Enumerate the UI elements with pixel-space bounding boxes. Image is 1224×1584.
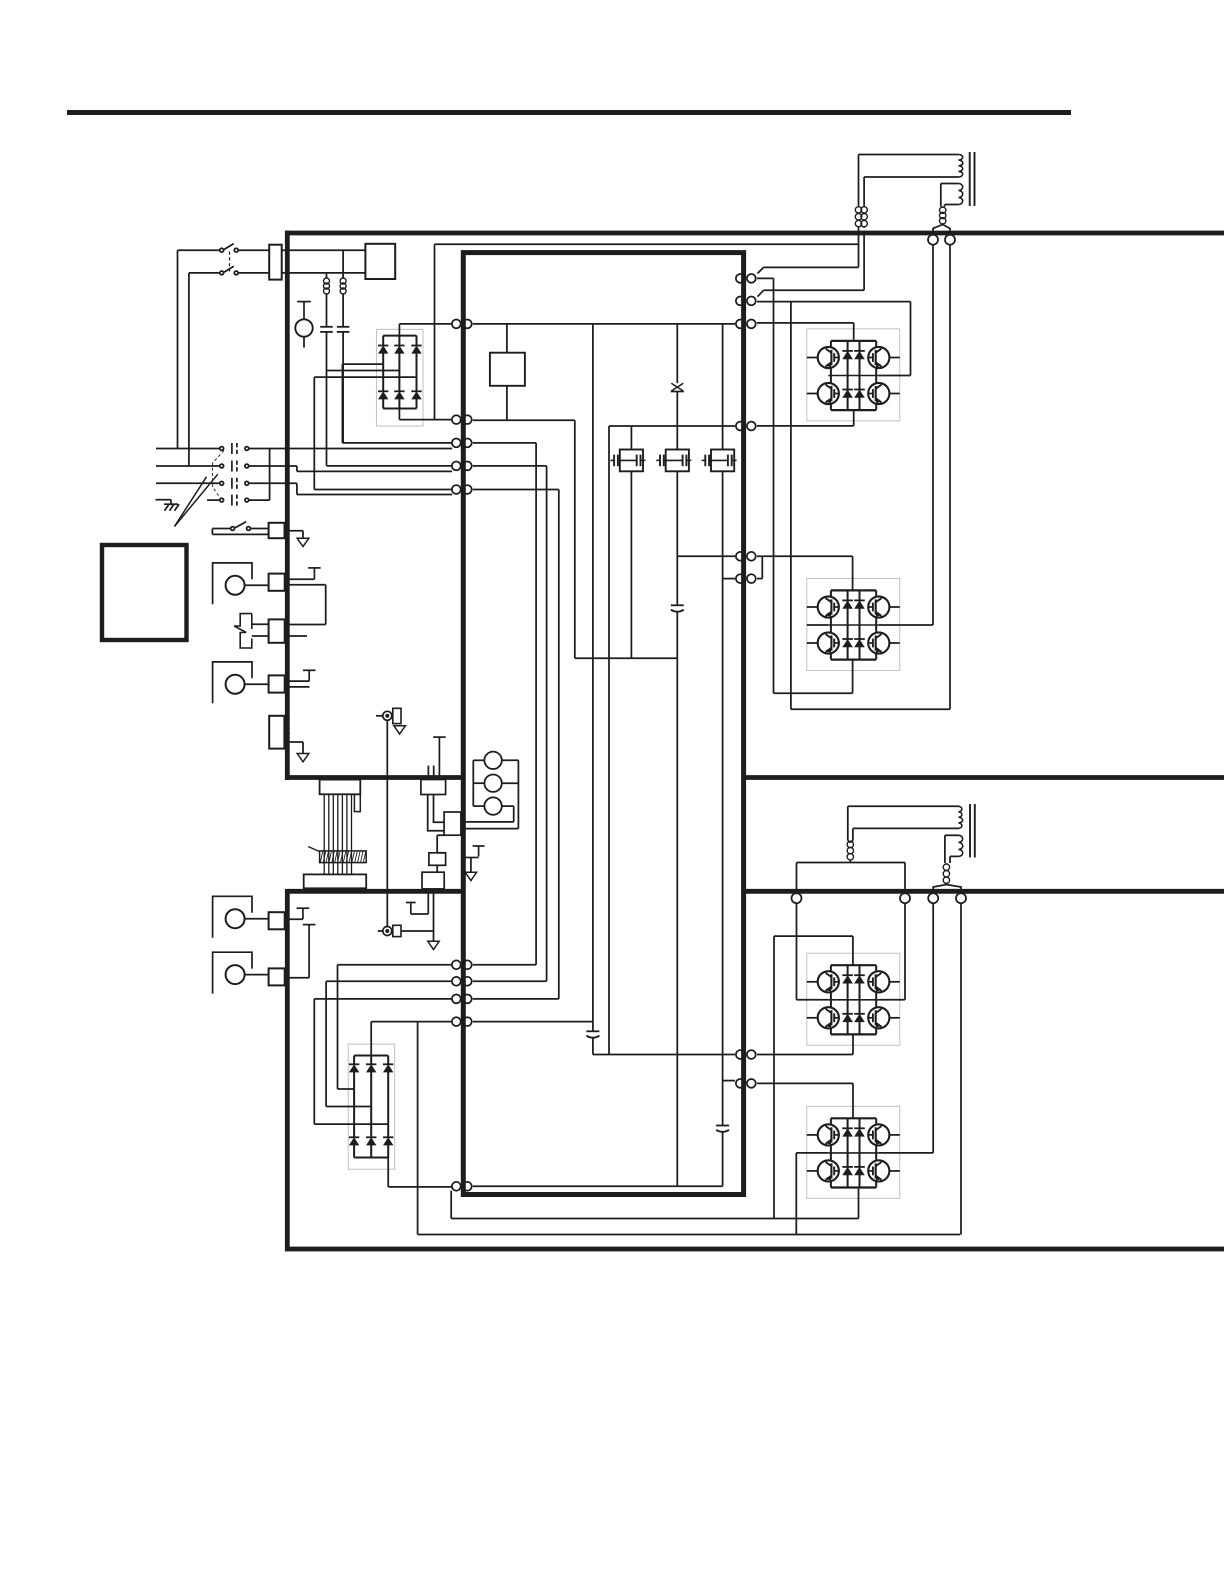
wire D1 tap3 to plug P3 [314,489,452,491]
D1 top bus [383,335,416,337]
wire plug Q1 down link [757,278,774,693]
plug P0 [452,415,472,424]
plug Q3 [736,320,756,329]
wire Z3 top feed [774,936,853,965]
wire FL1 to CB1 lower [282,272,366,274]
T2 secondary top lead [945,834,959,836]
socket J6 [900,893,910,903]
rail DC- vertical [574,420,576,658]
thermostat TP1 [308,568,321,579]
T1 secondary bottom lead [945,204,959,206]
IGBT module Z1 mid rail [828,368,879,384]
T2 secondary bottom lead [950,855,959,857]
switch S1 linkage [229,252,231,272]
fan motor FM3 [213,896,252,937]
IGBT module Z1 top bus [831,340,876,342]
contactor W contact 2 [220,461,249,472]
IGBT module Z4 diode column 2 [859,1118,861,1187]
T2 primary top lead [848,805,959,807]
node DC- to plug P0 [399,419,452,421]
plug Q5 [736,552,756,561]
RC2 wire A [285,578,315,580]
D2 column 3 lower [387,1124,389,1137]
wire plug Q2 loop [757,302,911,376]
contactor W contact 3 [220,478,249,489]
plug Q4 [736,422,756,431]
receptacle RC6 [269,912,285,929]
RC5 ground lead [290,742,303,754]
IGBT module Z1 diode column 2 [859,341,861,410]
ribbon wire [328,794,330,873]
T1 primary A through-wall [858,228,860,231]
IGBT module Z4 diode DA [842,1128,853,1136]
socket J3 [928,235,938,245]
wire pole A down [177,250,179,448]
K3-K4 link [436,865,438,872]
thermostat TP6 [406,903,416,915]
IGBT module Z4 diode DC [842,1167,853,1175]
ribbon wire [351,794,353,873]
socket J8 [956,893,966,903]
IGBT module Z1 transistor QBL [818,383,839,404]
T1 primary winding [959,155,963,178]
IGBT module Z1 diode DB [854,351,865,359]
connector K2 [444,812,461,835]
wire bus link vertical [790,302,792,710]
line L4 lead [207,499,220,501]
IGBT module Z4 transistor QTL [818,1124,839,1145]
T2 secondary down leads [945,835,950,863]
rail DC+ horizontal [473,323,735,325]
RC3 wire B [285,635,307,637]
contactor W linkage [213,451,225,500]
rail Q4 vertical [608,426,610,1055]
IGBT module Z4 transistor QBL [818,1160,839,1181]
line L1 lead [156,448,220,450]
wire Z4 mid left arm [796,1153,828,1235]
wire C9 down [676,612,678,659]
wire C10 down [722,1132,724,1187]
D2 phase in 2 [326,981,452,1106]
RC2 wire B [285,584,326,586]
T1 primary A down [858,155,860,206]
IGBT module Z3 diode DB [854,975,865,983]
IGBT module Z2 emitter leads [831,653,876,659]
IGBT module Z4 collector leads [831,1118,876,1124]
rail to plug Q4 [609,425,735,427]
plug Q2 [736,297,756,306]
plug Q1 [736,274,756,283]
breaker CB1 [365,244,395,279]
capacitor C2 [320,327,333,332]
D1 feed from node P+ [399,324,452,336]
D2 column 3 mid [387,1072,389,1124]
IGBT module Z3 transistor QBR [868,1007,889,1028]
diode D2a [349,1064,359,1072]
IGBT module Z4 transistor QTR [868,1124,889,1145]
IGBT module Z2 gate stubs [807,607,900,643]
D2 phase in 1 [338,965,453,1089]
line L2 jog [296,466,298,471]
IGBT module Z4 gate stubs [807,1135,900,1171]
D1 column 1 to bus [382,399,384,409]
IGBT module Z1 transistor QBR [868,383,889,404]
plug P5 [452,977,472,986]
snubber capacitors C5 C6 [656,450,691,472]
wire C9 to plug P8 run [676,658,678,1186]
line L2 lead [156,465,220,467]
IGBT module Z3 mid rail [828,992,879,1008]
IGBT module Z1 diode DC [842,390,853,398]
plug P7 [452,1017,472,1026]
IGBT module Z1 bottom bus [831,409,876,411]
T2 primary winding [959,806,963,828]
plug P2 [452,462,472,471]
IGBT module Z2 diode column 2 [859,590,861,659]
edge tick A [427,766,429,777]
IGBT module Z3 gate stubs [807,982,900,1018]
wire plug Q5 to Z2 top [757,556,853,590]
IGBT module Z2 diode DA [842,600,853,608]
D1 column 2 mid [398,353,400,371]
RC4 wire A [285,680,310,682]
phase rail B [473,466,547,981]
plug Q8 [736,1079,756,1088]
IGBT module Z3 diode DC [842,1014,853,1022]
E1 block [393,708,401,723]
diode D1c [411,346,421,354]
D1 column 2 upper lead [398,336,400,346]
receptacle RC7 [269,968,285,985]
T2 primary bottom lead [853,827,959,829]
wire RV1 to snubber2 [676,392,678,450]
T2 primary split rail [797,861,906,863]
wire T1 primary B riser [758,231,865,297]
connector K4 [422,872,444,889]
D1 column 2 lower [398,371,400,392]
D2 column 1 lower [353,1089,355,1137]
socket J7 [928,893,938,903]
receptacle RC5 with pins [269,716,290,749]
T2 core [970,804,975,858]
wire plug Q8 to Z4 top [757,1083,853,1118]
FM4 lead [245,974,269,976]
wire Q6 stub [723,578,735,580]
thermostat TP3 [303,670,316,681]
wire Z2 bottom tap [774,660,853,694]
test point E2 [378,927,392,936]
TP2 wire upper [252,623,269,625]
inductor L1 [340,278,346,295]
D2 column 2 mid [370,1072,372,1107]
D2 column 1 to bus [353,1145,355,1158]
T1 primary top lead [859,154,959,156]
snubber capacitors C3 C4 [610,450,645,472]
D2 bottom bus [354,1157,388,1159]
receptacle RC4 [269,675,285,692]
T1 primary B down [863,177,865,206]
chassis ground 2 [297,754,309,762]
E2 block [393,925,401,936]
ribbon header J2 [304,874,367,888]
IGBT module Z1 gate stubs [807,358,900,394]
wire L1 to C1 [342,294,344,327]
phase rail A [473,443,536,965]
chassis ground 1 [297,538,309,546]
wire Z4 bottom tap [858,1188,860,1219]
line L2 run [297,470,452,472]
IGBT module Z2 mid rail [828,617,879,633]
winding W3 [484,797,501,814]
ribbon shield tick [308,847,320,852]
RC4 wire B [285,686,310,688]
ribbon wire [337,794,339,873]
diode D2e [366,1137,376,1145]
capacitor C1 [337,327,350,332]
D1 bottom bus [383,408,416,410]
antenna stub T [433,737,446,777]
plug P6 [452,995,472,1004]
D1 column 3 to bus [416,399,418,409]
wire C2 down [326,332,328,466]
plug P1 [452,439,472,448]
D1 column 1 mid [382,353,384,364]
RC3 wire A [285,624,326,626]
rail P+ vertical [592,324,594,1031]
wire DC- riser [434,244,436,419]
inductor L2 [324,278,330,295]
T2 primary B down [850,828,853,842]
D1 column 3 mid [416,353,418,377]
diode D2c [383,1064,393,1072]
IGBT module Z3 diode column 2 [859,965,861,1034]
T2 secondary split [933,885,961,890]
plug P+ [452,320,472,329]
diode D1b [394,346,404,354]
chassis ground 5 [428,941,439,949]
IGBT module Z4 emitter leads [831,1181,876,1187]
IGBT module Z2 bottom bus [831,658,876,660]
wire output return [451,1191,858,1219]
diode D2d [349,1137,359,1145]
lower enclosure box top edge right part [746,889,1224,894]
D1 minus tap [398,409,400,420]
connector K1 [421,780,446,795]
T1 core [970,152,975,206]
K1 lead A [428,795,444,831]
D2 column 1 upper [353,1056,355,1065]
IGBT module Z3 diode DA [842,975,853,983]
wire T2 primary B to Z3 mid [879,903,905,1000]
FM3 lead [245,918,269,920]
IGBT module Z2 diode column 1 [847,590,849,659]
fan motor FM4 [213,952,252,993]
IGBT module Z3 collector leads [831,965,876,971]
earth ground [156,500,180,511]
rail to plug P7 [473,1021,593,1023]
S2 return wire [212,529,268,535]
ribbon wire [323,794,325,873]
ribbon shield (hatched) [320,851,367,863]
IGBT module Z1 collector leads [831,341,876,347]
FM1 lead [245,584,269,586]
IGBT module Z2 top bus [831,589,876,591]
K1 lead B [434,795,445,823]
wire plug Q1 to T1 primary A [758,231,859,274]
T2 primary A down [848,806,851,842]
wire output rail [418,1234,961,1236]
line L3 run [297,494,452,496]
receptacle RC3 [269,619,285,642]
wire P7 branch down [417,1022,419,1235]
wire plug Q6 stub out [757,556,762,578]
IGBT module Z1 diode column 1 [847,341,849,410]
contactor actuator arrow [174,474,217,526]
wire K4 lead B [433,891,435,941]
rail to plug P8 [473,1185,723,1187]
line L3 lead [156,482,220,484]
IGBT module Z3 bottom bus [831,1033,876,1035]
TP2 wire lower [252,635,269,637]
chassis ground 3 [394,726,406,734]
T1 primary bottom lead [864,176,958,178]
IGBT module Z2 transistor QBL [818,632,839,653]
D1 column 3 lower [416,377,418,391]
IGBT module Z3 transistor QTL [818,971,839,992]
line L1 to vertical bus [249,448,453,450]
test point E1 [376,711,392,720]
T2 secondary winding [959,835,963,856]
IGBT module Z2 transistor QTR [868,596,889,617]
line L3 segment [249,482,297,484]
wire pole B down [188,273,190,466]
IGBT module Z2 diode DC [842,639,853,647]
top horizontal rule [67,110,1071,115]
K2-K3 link [437,835,444,853]
D1 phase tap 1 [343,363,383,365]
T1 secondary down leads [941,184,945,207]
T1 secondary split [933,225,950,232]
wire T2 secondary B down [960,903,962,1235]
line L4 segment [249,499,270,501]
IGBT module Z4 diode DB [854,1128,865,1136]
fan motor FM2 [213,662,252,703]
RC1 chassis lead [285,531,304,539]
receptacle RC2 [269,574,285,591]
IGBT module Z1 transistor QTR [868,347,889,368]
cross rail [575,657,678,659]
line L3 jog [296,483,298,494]
lower enclosure box top edge left part [285,889,461,894]
wire plug P7 out [371,1021,452,1023]
wire snubber3 down [722,471,724,1125]
wire Z2 mid left ext [807,624,829,626]
upper enclosure box bottom edge left part [285,775,461,780]
plug P8 [452,1182,472,1191]
T2 primary choke [847,841,853,861]
IGBT module Z4 diode DD [854,1167,865,1175]
socket J4 [945,235,955,245]
rail DC- from plug P0 [473,419,575,421]
IGBT module Z4 bottom bus [831,1186,876,1188]
IGBT module Z2 transistor QTL [818,596,839,617]
RC6 wire [285,918,303,920]
D2 feed [370,1022,372,1056]
wire D1 tap2 to plug P2 [327,465,453,467]
D1 phase tap 2 [327,370,400,372]
thermostat TP5 [303,925,316,978]
wire C1 down [342,332,344,443]
lower enclosure box bottom edge [285,1247,1224,1252]
capacitor C11 [586,1031,599,1037]
IGBT module Z2 collector leads [831,590,876,596]
diode D2f [383,1137,393,1145]
wire rail to RV1 [676,324,678,383]
winding left leads [473,760,484,806]
IGBT module Z4 top bus [831,1117,876,1119]
wire D1 tap1 to plug P1 [342,364,452,443]
wire plug Q3 to Z1 top [757,323,854,341]
contactor W contact 1 [220,443,249,454]
IGBT module Z2 transistor QBR [868,632,889,653]
transistor Q17 [463,846,484,872]
upper enclosure box left edge [285,231,290,780]
IGBT module Z4 mid rail [828,1145,879,1161]
plug P3 [452,485,472,494]
bus L4-L1 [269,449,271,501]
wire C11 down [592,1038,594,1055]
D1 column 1 lower [382,364,384,391]
IGBT module Z2 module outline [807,578,900,670]
IGBT module Z3 transistor QTR [868,971,889,992]
capacitor C10 [716,1126,729,1132]
diode D1a [378,346,388,354]
line L2 segment [249,465,297,467]
wire FL1 to CB1 upper [282,249,366,251]
diode D1f [411,391,421,399]
rail to plug Q7 [593,1054,735,1056]
IGBT module Z2 diode DD [854,639,865,647]
switch S2 [212,522,268,531]
fan motor FM1 [213,563,252,604]
legend box [102,545,187,640]
wire plug Q8 stub [723,1080,735,1082]
ribbon header J1 key tab [354,794,360,811]
wire Z1 bottom tap [853,410,855,426]
D2 phase in 3 [314,999,452,1124]
socket J5 [792,893,802,903]
D1 phase tap 3 [314,376,416,378]
winding left bus [472,760,474,806]
IGBT module Z3 diode column 1 [847,965,849,1034]
winding right leads [502,760,519,822]
diode D2b [366,1064,376,1072]
E2 wire right [401,930,434,932]
ribbon wire [346,794,348,873]
winding W2 [484,775,501,792]
wire snubber2 down [676,471,678,605]
wire E1 down [386,720,388,926]
IGBT module Z4 module outline [807,1106,900,1198]
lower enclosure box left edge [285,889,290,1251]
bleeder R1 [490,353,525,386]
D2 column 3 upper [387,1056,389,1065]
plug Q7 [736,1050,756,1059]
D1 column 1 upper lead [382,336,384,346]
varistor RV1 [671,383,684,391]
contactor W contact 4 [220,495,249,506]
rectifier D1 outline [376,329,423,426]
